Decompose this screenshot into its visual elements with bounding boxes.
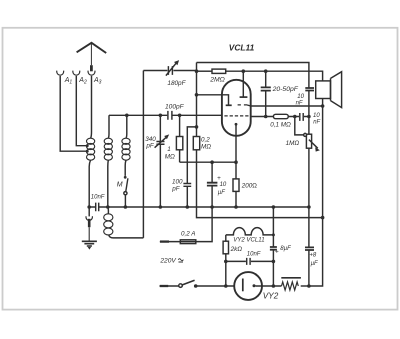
node 340pF top — [159, 114, 163, 118]
speaker cone — [331, 72, 342, 108]
svg-text:A3: A3 — [93, 77, 102, 85]
wire switch M to bus — [124, 195, 126, 207]
node 100pF bus — [186, 205, 190, 209]
svg-text:µF: µF — [218, 190, 225, 196]
wire coil L4 top lead — [107, 207, 110, 214]
svg-text:pF: pF — [171, 186, 181, 193]
wire coil L2 bottom to bus — [107, 160, 110, 207]
wire 10nF top to grid node — [308, 91, 310, 117]
wire earth lead — [88, 207, 90, 216]
node 2M left — [195, 69, 199, 73]
tube VY2 envelope — [234, 272, 262, 300]
svg-text:10nF: 10nF — [247, 251, 261, 257]
wire 180pF feedback branch vertical — [142, 71, 144, 238]
wire mains switch left — [160, 285, 179, 287]
svg-text:2MΩ: 2MΩ — [209, 77, 225, 84]
node zigzag rail A — [307, 284, 311, 288]
triode anode bar — [226, 104, 232, 106]
capacitor 10uF cathode — [211, 162, 213, 182]
wire vertical top corner to triode — [196, 63, 198, 127]
coil L2 grid winding — [104, 138, 112, 160]
coil L3 wave winding — [122, 138, 130, 160]
node 10nF left — [224, 260, 228, 264]
wire antenna lead — [90, 44, 92, 66]
svg-text:2kΩ: 2kΩ — [230, 246, 243, 253]
earth plug pin — [88, 219, 91, 227]
svg-text:180pF: 180pF — [167, 80, 186, 87]
capacitor 8uF — [270, 247, 277, 250]
tube cathode dot — [235, 123, 238, 126]
resistor bar above zigzag — [281, 277, 301, 279]
switch M contact top — [124, 176, 127, 179]
svg-text:0,2 A: 0,2 A — [181, 230, 195, 237]
capacitor 100pF bottom — [183, 184, 191, 187]
node 200ohm top — [234, 160, 238, 164]
wire coil L3 top lead — [125, 115, 128, 138]
capacitor 8uF reservoir — [305, 247, 314, 250]
node speaker grid wire — [321, 104, 325, 108]
terminal A2 — [73, 71, 80, 76]
fuse 0.2A — [180, 240, 196, 244]
resistor R 2M — [197, 70, 213, 72]
switch mains contact — [179, 284, 183, 288]
coil L4 regeneration — [104, 214, 113, 235]
wire 0.2M to B+ rail — [197, 150, 323, 218]
node triode anode wire — [195, 93, 199, 97]
svg-text:VY2: VY2 — [263, 291, 279, 300]
svg-text:A2: A2 — [78, 77, 87, 85]
wire triode anode lead — [197, 95, 229, 105]
wire coil L3 bottom to switch — [124, 160, 127, 176]
svg-text:+: + — [217, 175, 221, 182]
node 340pF bus — [159, 205, 163, 209]
wire 100pF to bus — [186, 186, 188, 207]
wire rail B — [309, 106, 323, 286]
svg-text:M: M — [117, 181, 123, 188]
capacitor 10nF grid — [300, 113, 303, 121]
tube VCL11 envelope — [222, 80, 251, 136]
svg-text:100: 100 — [172, 179, 183, 186]
wire pentode grid line — [251, 105, 323, 107]
wire pot wiper — [295, 117, 304, 135]
svg-text:10: 10 — [297, 94, 304, 100]
wire heater rail 8uF — [272, 207, 274, 286]
node switch M bus — [124, 205, 128, 209]
svg-text:pF: pF — [145, 143, 155, 150]
VY2 cathode bar — [242, 279, 244, 292]
node 10uF top — [210, 160, 214, 164]
svg-text:MΩ: MΩ — [201, 144, 211, 151]
node 200ohm bus — [234, 205, 238, 209]
svg-text:10nF: 10nF — [91, 195, 105, 201]
node pentode anode junction — [242, 69, 246, 73]
switch M contact bottom — [124, 192, 127, 195]
wire cathode lead — [235, 126, 237, 163]
svg-text:1: 1 — [167, 146, 171, 153]
svg-text:A1: A1 — [64, 77, 73, 85]
wire A2 to coil tap — [76, 76, 87, 146]
node pot top — [307, 115, 311, 119]
resistor R 1M grid leak — [179, 115, 181, 136]
svg-text:nF: nF — [296, 101, 303, 107]
resistor zigzag dropping — [282, 282, 299, 290]
ground symbol — [82, 241, 97, 246]
svg-text:1MΩ: 1MΩ — [286, 140, 300, 147]
node bus end rail A — [307, 205, 311, 209]
wire coil L1 bottom to earth node — [89, 160, 90, 207]
wire 0.1M grid2 line — [251, 116, 309, 118]
arrowhead 340pF — [164, 134, 169, 139]
svg-text:+: + — [275, 249, 279, 256]
svg-text:MΩ: MΩ — [165, 154, 175, 161]
wire regeneration coil link — [109, 235, 144, 238]
node coil tap A2 — [86, 144, 89, 147]
wire VY2 anode out — [256, 285, 282, 287]
wire 10nF cathode line — [226, 260, 274, 262]
control grid dashes — [224, 115, 250, 117]
svg-text:0,1 MΩ: 0,1 MΩ — [270, 121, 291, 128]
resistor R 200ohm — [235, 162, 237, 179]
coil L1 antenna winding — [87, 138, 95, 160]
VY2 anode dot — [253, 284, 256, 287]
node 10uF fuse bus — [210, 205, 214, 209]
capacitor 180pF variable — [168, 66, 172, 75]
wire fuse branch — [160, 207, 212, 242]
terminal A3 — [88, 71, 95, 76]
node earth junction — [87, 205, 91, 209]
svg-text:20-50pF: 20-50pF — [272, 86, 299, 93]
resistor R 0.1M — [273, 114, 288, 118]
antenna — [77, 43, 107, 53]
resistor R 2k — [225, 235, 227, 241]
pentode anode bar — [240, 96, 248, 98]
svg-text:10: 10 — [220, 182, 227, 188]
svg-text:8µF: 8µF — [280, 246, 291, 252]
wire coil L2 top lead — [107, 115, 110, 138]
svg-text:220V: 220V — [159, 257, 176, 264]
switch mains blade — [182, 280, 194, 285]
capacitor 340pF variable — [155, 138, 166, 148]
node 2k branch — [224, 284, 228, 288]
svg-text:200Ω: 200Ω — [241, 182, 258, 189]
wire 1M bottom to cathode line — [179, 150, 181, 162]
svg-text:µF: µF — [311, 261, 318, 267]
wire top screen line — [197, 63, 309, 88]
node 8uF bottom — [272, 284, 276, 288]
node heater bus — [272, 205, 276, 209]
capacitor 10nF top — [305, 88, 314, 91]
symbol AC sine — [178, 259, 183, 262]
node 20-50pF bottom — [264, 115, 268, 119]
capacitor 20-50pF — [265, 71, 267, 87]
earth plug socket — [86, 216, 92, 220]
wire A3 to coil L1 — [90, 76, 93, 138]
wire 180pF left — [143, 70, 167, 72]
node switch right — [194, 284, 198, 288]
wire grid line — [109, 114, 222, 116]
capacitor 10nF VY2 — [247, 258, 250, 265]
capacitor 100pF top — [168, 111, 172, 120]
pentode grid dashes — [238, 105, 251, 106]
wire rail A lower — [308, 207, 310, 286]
svg-text:VY2 VCL11: VY2 VCL11 — [233, 236, 264, 243]
potentiometer 1M — [308, 117, 310, 135]
svg-text:100pF: 100pF — [165, 104, 185, 111]
wire pentode anode lead — [242, 71, 244, 97]
svg-text:0,2: 0,2 — [201, 136, 210, 143]
arrowhead 1M pot — [315, 147, 320, 151]
node rail B 0.2M wire — [321, 216, 325, 220]
wire pot to bus — [308, 148, 310, 207]
node coil L2 bus — [106, 205, 110, 209]
switch M blade — [126, 178, 128, 191]
node heater corner — [272, 233, 275, 236]
node coil tap A1 — [86, 150, 89, 153]
svg-text:+8: +8 — [309, 253, 317, 259]
wire cathode line — [180, 161, 236, 163]
svg-text:10: 10 — [313, 113, 320, 119]
node coil L3 top — [125, 114, 129, 118]
wire A1 to coil tap — [60, 76, 87, 151]
heater filament VY2 VCL11 — [226, 228, 274, 235]
resistor R 0.2M — [196, 127, 198, 137]
terminal A1 — [57, 71, 64, 76]
node 10nF right — [272, 260, 276, 264]
node 1M grid leak top — [178, 114, 182, 118]
wire 340pF branch — [159, 115, 161, 207]
wire to ground — [88, 227, 90, 241]
node 100pF anode branch — [195, 125, 199, 129]
wire main bus — [89, 206, 309, 208]
speaker driver — [316, 81, 331, 99]
wire zigzag to rails — [301, 285, 309, 287]
wire pentode anode to speaker — [243, 71, 322, 81]
wire switch to VY2 — [196, 285, 235, 287]
capacitor 10nF earth — [96, 203, 99, 212]
svg-text:VCL11: VCL11 — [229, 43, 255, 53]
wire speaker bottom — [322, 99, 324, 107]
pot wiper circle — [304, 133, 307, 136]
wire 100pF anode bypass branch — [187, 127, 196, 183]
antenna plug pin — [90, 65, 93, 71]
svg-text:nF: nF — [313, 120, 320, 126]
arrowhead 180pF — [174, 60, 179, 65]
node pentode dot 20-50pF — [264, 69, 268, 73]
node 10nF wiper — [293, 115, 297, 119]
